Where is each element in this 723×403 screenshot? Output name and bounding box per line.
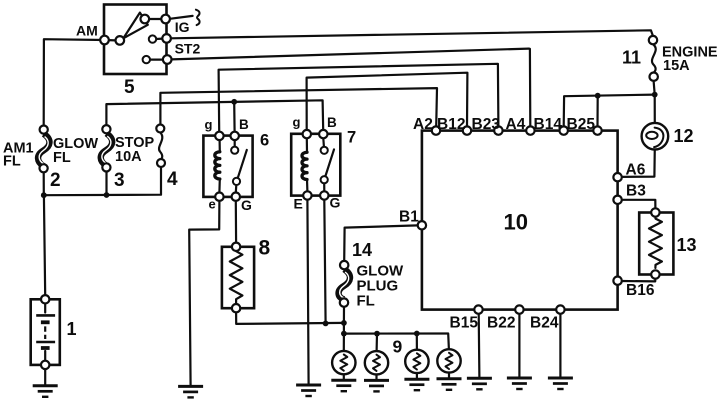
terminal A2	[432, 126, 440, 134]
switch 5 arm-to-IG link	[149, 18, 162, 20]
wire glow plug 4 to ground	[448, 373, 450, 379]
wire glow plug 1 to ground	[343, 374, 345, 380]
resistor 8	[222, 243, 254, 313]
svg-text:FL: FL	[3, 154, 21, 170]
glow plug fusible link 14	[339, 261, 350, 307]
resistor 13	[639, 208, 673, 278]
terminal AM	[100, 36, 109, 45]
junction B25 node	[595, 93, 601, 99]
svg-text:e: e	[209, 197, 216, 212]
wire switch ST2 row to ENGINE fuse 11	[171, 30, 653, 38]
svg-text:13: 13	[677, 235, 697, 255]
svg-text:15A: 15A	[663, 58, 690, 74]
wire bus to battery	[44, 195, 45, 295]
relay 7	[291, 130, 340, 200]
svg-text:6: 6	[260, 132, 269, 150]
terminal B3	[613, 196, 621, 204]
terminal A4	[526, 126, 534, 134]
svg-text:4: 4	[167, 169, 178, 190]
svg-text:B16: B16	[626, 282, 655, 299]
junction GLOW feeder to relay 6 B	[231, 99, 237, 105]
terminal B1	[418, 221, 426, 229]
wire GLOW fuse 3 bottom to bus	[105, 171, 107, 195]
battery 1	[31, 295, 60, 369]
junction fuse 11 node	[652, 92, 658, 98]
svg-text:FL: FL	[53, 150, 71, 166]
wire relay 6 g to terminal B23	[219, 64, 499, 132]
wire IG with open-end hook	[170, 16, 193, 19]
terminal B25	[593, 126, 601, 134]
svg-text:A2: A2	[413, 116, 433, 133]
wire B15 to ground	[478, 314, 481, 378]
svg-text:B22: B22	[487, 315, 515, 332]
svg-text:B3: B3	[626, 183, 646, 200]
junction fuse bus at GLOW	[104, 192, 110, 198]
glow plug 9 unit 3	[405, 350, 428, 373]
svg-text:B12: B12	[437, 116, 465, 133]
svg-text:3: 3	[114, 170, 125, 191]
terminal B22	[515, 305, 523, 313]
control unit box 10	[422, 131, 618, 310]
svg-text:ST2: ST2	[175, 41, 201, 57]
wire resistor 13 to terminal B16	[622, 279, 655, 282]
indicator lamp 12	[642, 123, 669, 150]
terminal A6	[613, 173, 621, 181]
terminal IG	[161, 15, 170, 24]
wire B22 to ground	[518, 314, 520, 378]
terminal B24	[556, 305, 564, 313]
switch 5 pivot contact	[116, 36, 125, 45]
ignition switch 5 box	[104, 5, 167, 75]
svg-text:1: 1	[67, 319, 77, 339]
fusible link 3 GLOW FL	[101, 125, 112, 171]
svg-text:FL: FL	[357, 293, 375, 310]
svg-text:8: 8	[259, 237, 271, 260]
svg-text:AM: AM	[76, 23, 98, 39]
wire resistor 8 to glow plug bus	[236, 312, 344, 324]
wire GLOW fuse 3 to relay B terminals	[106, 100, 323, 130]
glow plug 9 unit 1	[332, 351, 355, 374]
wire glow plug bus	[344, 323, 449, 350]
ground relay 6 e	[178, 386, 203, 397]
svg-text:G: G	[330, 195, 341, 211]
svg-text:B24: B24	[530, 315, 559, 332]
svg-text:B: B	[239, 117, 249, 132]
wire terminal B3 to resistor 13	[622, 200, 656, 209]
svg-text:B25: B25	[567, 116, 596, 133]
ground battery	[33, 386, 58, 397]
svg-text:g: g	[205, 117, 213, 132]
ground glow plug 4	[437, 379, 462, 390]
fuse 4 STOP 10A	[156, 125, 165, 168]
ground glow plug 3	[404, 379, 429, 390]
svg-text:5: 5	[124, 77, 135, 98]
switch 5 row3 free contact	[143, 56, 150, 63]
wire glow plug 3 to ground	[416, 373, 418, 379]
wire junction to lamp 12	[654, 95, 656, 129]
wire relay 7 E to ground	[307, 200, 308, 385]
terminal B12	[463, 126, 471, 134]
wire relay 6 e to ground	[189, 201, 219, 386]
terminal B16	[613, 277, 621, 285]
svg-text:B23: B23	[472, 116, 501, 133]
svg-text:A6: A6	[626, 162, 646, 179]
wire battery to ground	[44, 369, 46, 386]
wire lamp 12 to terminal A6	[622, 147, 655, 177]
terminal row2	[162, 34, 171, 43]
svg-text:10A: 10A	[115, 149, 142, 165]
svg-text:B: B	[327, 115, 337, 130]
wire fuse bottom bus	[44, 167, 161, 195]
svg-text:A4: A4	[506, 116, 526, 133]
ground B24	[548, 378, 573, 389]
ground glow plug 1	[331, 380, 356, 391]
wire relay 7 g to terminal B12	[307, 73, 468, 130]
wire relay 7 G down to bus junction	[324, 200, 325, 324]
fusible link 2 AM1 FL	[38, 126, 49, 173]
switch 5 row2 link	[156, 37, 162, 40]
svg-text:E: E	[294, 196, 303, 212]
relay 6	[203, 132, 252, 201]
svg-text:G: G	[241, 197, 252, 213]
junction glow bus at plug 1	[341, 331, 347, 337]
svg-text:7: 7	[347, 129, 356, 147]
wire AM terminal to fusible link 2	[44, 39, 105, 125]
wire ENGINE fuse 11 to junction node	[654, 81, 655, 95]
wire fusible link 14 to junction	[343, 307, 345, 323]
svg-text:IG: IG	[175, 19, 190, 35]
switch 5 arm end contact	[141, 15, 150, 24]
switch 5 row3 link	[150, 58, 163, 60]
ground glow plug 2	[364, 380, 389, 391]
ENGINE fuse 11	[649, 36, 658, 81]
junction glow bus at plug 2	[374, 331, 380, 337]
terminal B23	[494, 126, 502, 134]
svg-text:9: 9	[393, 337, 403, 357]
glow plug 9 unit 4	[437, 349, 460, 372]
wire junction to relay 6 B	[233, 102, 236, 132]
ground B22	[507, 378, 532, 389]
wire switch lower row to terminal A4	[171, 49, 528, 60]
switch 5 wiper arm	[123, 13, 148, 39]
glow plug 9 unit 2	[365, 351, 388, 374]
svg-text:B1: B1	[399, 209, 419, 226]
terminal row3 ST2	[163, 55, 172, 64]
svg-text:g: g	[293, 115, 301, 130]
ground B15	[467, 378, 492, 389]
wire bus to glow plug 2	[376, 334, 379, 352]
svg-text:2: 2	[50, 170, 61, 191]
wire junction to B25 vertical	[596, 96, 598, 127]
wire junction to B14 and B25	[564, 95, 655, 127]
junction relay 7 G bus	[323, 321, 329, 327]
wire glow plug 2 to ground	[375, 374, 377, 380]
svg-text:12: 12	[674, 126, 694, 146]
wire A4 vertical	[529, 49, 531, 127]
switch 5 wiper link	[105, 39, 116, 42]
wire bus to glow plug 1	[343, 334, 345, 352]
junction glow bus at plug 3	[414, 331, 420, 337]
svg-text:B14: B14	[534, 116, 563, 133]
terminal B14	[560, 126, 568, 134]
svg-text:14: 14	[352, 240, 372, 260]
switch 5 row2 free contact	[149, 35, 156, 42]
wire STOP fuse 4 to terminal A2	[160, 88, 437, 126]
wire B24 to ground	[559, 314, 561, 378]
wire terminal B1 to glow plug fusible link 14	[344, 225, 418, 261]
terminal B15	[474, 305, 482, 313]
svg-text:11: 11	[622, 48, 641, 68]
svg-text:B15: B15	[450, 315, 479, 332]
junction bus to link 14	[341, 320, 347, 326]
wire bus to glow plug 3	[416, 334, 418, 350]
svg-text:10: 10	[504, 210, 528, 235]
junction fuse bus at AM1	[41, 192, 47, 198]
ground relay 7 E	[296, 385, 321, 396]
wire relay 6 G to resistor 8	[235, 201, 238, 243]
